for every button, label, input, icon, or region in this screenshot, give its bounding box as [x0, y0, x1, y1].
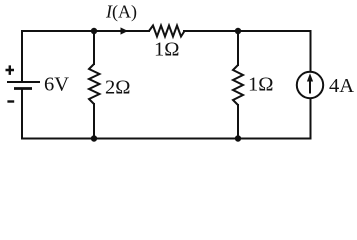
battery V1 positive long plate — [7, 81, 40, 83]
resistor R2 2ohm vertical zigzag — [89, 64, 100, 104]
wire from R2 down to node B — [93, 103, 95, 139]
current source arrow shaft — [309, 79, 311, 94]
wire top-mid segment from node A to resistor R1 — [94, 30, 150, 32]
wire bottom from node B through node D to current source bottom — [94, 98, 311, 139]
current source arrow head — [307, 73, 313, 81]
wire top-right segment from R1 to current source top — [183, 31, 311, 72]
wire top-left segment from battery top to node A — [22, 31, 94, 82]
svg-text:6V: 6V — [44, 74, 69, 96]
wire from node A down to resistor R2 — [93, 31, 95, 65]
node A junction dot — [91, 28, 97, 34]
resistor R1 1ohm horizontal zigzag — [149, 26, 185, 37]
current arrow I — [121, 27, 129, 34]
minus sign of battery — [7, 100, 14, 102]
wire from node C down to resistor R3 — [237, 31, 239, 66]
wire bottom-left from battery bottom to node B — [22, 89, 94, 139]
wire from R3 down to node D — [237, 104, 239, 139]
svg-text:1Ω: 1Ω — [154, 39, 180, 61]
node C junction dot — [235, 28, 241, 34]
svg-text:I(A): I(A) — [105, 2, 137, 23]
resistor R3 1ohm vertical zigzag — [233, 65, 243, 105]
svg-text:2Ω: 2Ω — [105, 77, 131, 99]
plus sign of battery — [6, 65, 15, 75]
svg-text:4A: 4A — [329, 75, 354, 97]
node B junction dot — [91, 135, 97, 141]
current source U1 circle — [297, 72, 323, 98]
node D junction dot — [235, 135, 241, 141]
battery V1 negative short thick plate — [14, 87, 32, 90]
svg-text:1Ω: 1Ω — [248, 74, 274, 96]
